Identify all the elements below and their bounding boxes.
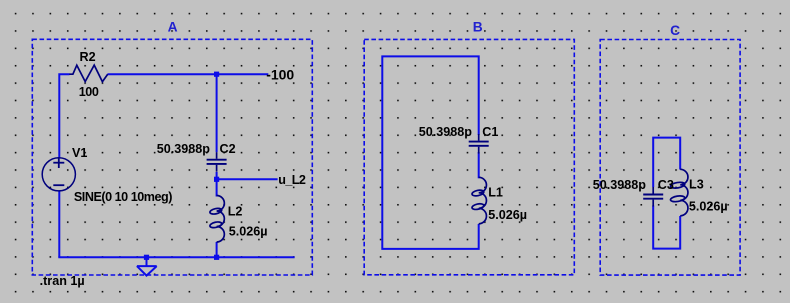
svg-text:V1: V1	[72, 146, 87, 160]
svg-text:L1: L1	[488, 186, 503, 200]
svg-text:50.3988p: 50.3988p	[593, 178, 647, 192]
svg-text:5.026µ: 5.026µ	[229, 225, 268, 239]
svg-text:L3: L3	[689, 178, 704, 192]
svg-text:C: C	[670, 23, 680, 38]
svg-text:C1: C1	[482, 125, 498, 139]
svg-text:A: A	[168, 19, 178, 34]
svg-text:C2: C2	[220, 142, 236, 156]
svg-text:u_L2: u_L2	[278, 173, 306, 187]
svg-text:L2: L2	[228, 205, 243, 219]
svg-text:R2: R2	[80, 50, 96, 64]
svg-text:5.026µ: 5.026µ	[689, 199, 728, 213]
svg-text:-100: -100	[266, 67, 294, 83]
svg-text:50.3988p: 50.3988p	[419, 125, 473, 139]
svg-text:100: 100	[79, 85, 99, 99]
svg-text:5.026µ: 5.026µ	[488, 208, 527, 222]
svg-text:.tran 1µ: .tran 1µ	[40, 274, 85, 288]
svg-text:SINE(0 10 10meg): SINE(0 10 10meg)	[74, 190, 172, 204]
svg-text:50.3988p: 50.3988p	[157, 142, 211, 156]
svg-text:B: B	[473, 19, 483, 34]
svg-text:C3: C3	[658, 178, 674, 192]
